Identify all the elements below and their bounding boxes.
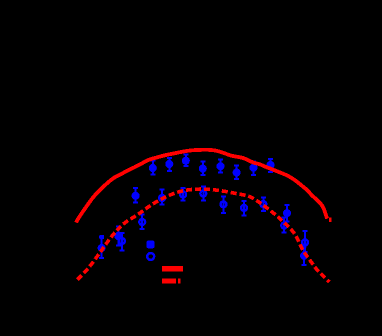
legend line dashed [162,279,176,284]
hydro curve dashed (lower) [76,189,330,282]
data point filled-circle A11 [266,159,274,172]
legend line solid [162,266,183,272]
data point open-circle B5 [200,186,206,200]
data point filled-circle A6 [182,154,190,166]
solid curve detached end blob [329,218,331,223]
data point filled-circle A2 [114,227,122,246]
data point filled-circle A1 [98,237,106,258]
legend marker filled-square [147,241,155,249]
data point open-circle B4 [180,188,186,201]
data point A1 top cap emphasis [100,235,105,239]
data point filled-circle A13 [300,247,308,265]
data point open-circle B3 [159,190,165,205]
data point open-circle B9 [281,218,287,233]
data point open-circle B2 [139,215,145,230]
data point open-circle B6 [221,197,227,214]
legend marker open-circle [147,253,154,260]
data point filled-circle A5 [165,158,173,171]
hydro curve solid (upper) [76,150,327,223]
data point filled-circle A7 [199,162,207,175]
data point open-circle B7 [241,201,247,216]
data point filled-circle A10 [249,162,257,175]
data point filled-circle A12 [283,205,291,222]
data point filled-circle A9 [233,166,241,179]
data point open-circle B1 [119,233,125,251]
data point filled-circle A3 [132,188,140,203]
data point open-circle B10 [302,231,308,252]
data point filled-circle A4 [149,161,157,175]
data point filled-circle A8 [216,160,224,173]
data point open-circle B8 [260,198,266,212]
